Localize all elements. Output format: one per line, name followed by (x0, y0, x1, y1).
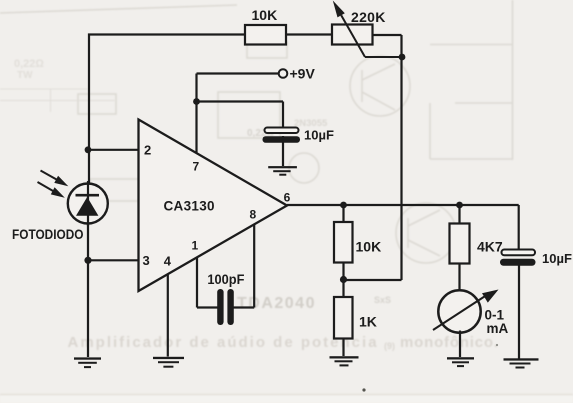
svg-text:10K: 10K (356, 239, 382, 255)
svg-text:1K: 1K (359, 314, 377, 330)
svg-text:TW: TW (17, 70, 33, 81)
svg-text:10K: 10K (252, 7, 278, 23)
svg-text:monofônico.: monofônico. (400, 334, 499, 351)
svg-text:220K: 220K (351, 9, 386, 25)
svg-text:0,22Ω: 0,22Ω (14, 58, 44, 70)
svg-text:CA3130: CA3130 (164, 198, 215, 213)
svg-text:Amplificador de aúdio de potên: Amplificador de aúdio de potência (68, 334, 379, 351)
svg-text:TDA2040: TDA2040 (237, 295, 316, 312)
svg-text:10µF: 10µF (304, 128, 334, 143)
svg-text:7: 7 (193, 159, 200, 173)
svg-text:+9V: +9V (290, 66, 316, 82)
svg-text:(9): (9) (384, 341, 395, 351)
svg-text:1: 1 (192, 239, 199, 253)
svg-text:10µF: 10µF (542, 251, 572, 266)
svg-text:100pF: 100pF (207, 271, 244, 287)
svg-text:2: 2 (144, 143, 151, 158)
svg-text:FOTODIODO: FOTODIODO (12, 227, 84, 242)
svg-text:3: 3 (143, 253, 150, 268)
svg-text:4: 4 (164, 254, 172, 269)
svg-text:6: 6 (284, 190, 291, 204)
svg-text:mA: mA (487, 321, 509, 336)
svg-text:8: 8 (250, 208, 257, 222)
svg-text:4K7: 4K7 (477, 239, 503, 255)
svg-text:SxS: SxS (374, 295, 391, 305)
